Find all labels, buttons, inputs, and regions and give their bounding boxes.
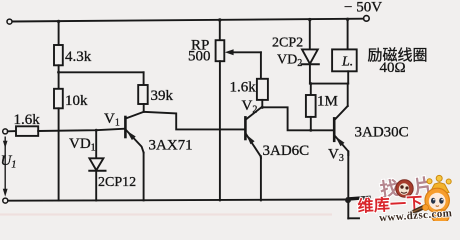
terminal input top <box>3 129 8 134</box>
pink scan smear <box>0 213 332 215</box>
wire: L to node <box>347 71 349 83</box>
wire: 1.6k to V2 collector node <box>261 100 263 108</box>
wire: 10k down to bottom rail <box>58 108 60 200</box>
watermark mascot crown <box>427 175 451 192</box>
svg-text:1.6k: 1.6k <box>230 80 257 96</box>
svg-text:2CP2: 2CP2 <box>272 36 303 51</box>
svg-text:3AD30C: 3AD30C <box>355 125 409 141</box>
terminal -50V <box>364 16 370 22</box>
wire: stem to RP500 <box>219 20 221 40</box>
wire: stem to 39k <box>143 72 145 85</box>
wire: 1M top stem <box>310 84 312 95</box>
wire: RP500 down to bottom rail <box>219 61 221 200</box>
resistor 1.6k middle <box>257 79 268 100</box>
wire: stem to R 4.3k <box>58 21 60 45</box>
resistor 39k <box>138 85 148 104</box>
bottom rail stub right <box>348 197 369 199</box>
resistor 10k <box>54 89 63 109</box>
resistor 1.6k input <box>16 126 38 136</box>
wiper arrow of RP500 <box>225 49 261 79</box>
node wire VD2/L/1M/V3C <box>310 83 348 85</box>
svg-text:3AD6C: 3AD6C <box>263 143 310 159</box>
svg-text:L.: L. <box>341 55 353 70</box>
wire: V3 emitter down past rail <box>347 151 349 218</box>
watermark mascot arm <box>423 205 429 211</box>
wire: V2 collector to V3 base <box>262 107 333 130</box>
diode VD2 <box>302 49 318 63</box>
wire: 4.3k to node A <box>58 65 60 89</box>
wire: stem to coil L <box>347 19 349 49</box>
top rail wire <box>12 19 363 22</box>
bottom rail wire <box>8 200 348 201</box>
wire: VD1 cathode to bottom rail <box>95 171 97 201</box>
svg-text:500: 500 <box>188 49 211 65</box>
arrow U1 input polarity <box>3 137 8 197</box>
resistor 4.3k <box>54 45 63 65</box>
resistor 1M <box>306 95 316 117</box>
terminal bottom-left <box>3 198 8 203</box>
svg-text:4.3k: 4.3k <box>65 49 92 65</box>
svg-text:3AX71: 3AX71 <box>149 138 193 154</box>
wire: 1M bottom stem <box>310 117 312 130</box>
wire: 1.6k to V1 base <box>38 129 124 131</box>
watermark mascot eyes <box>431 198 444 204</box>
potentiometer RP500 <box>216 40 225 61</box>
wire: node to V3 collector <box>347 84 349 106</box>
transistor V2 <box>245 107 262 158</box>
svg-text:2CP12: 2CP12 <box>98 175 136 190</box>
wire: V1 emitter to bottom rail <box>143 153 145 201</box>
watermark mascot pen <box>409 204 432 215</box>
svg-text:1M: 1M <box>317 94 338 110</box>
svg-text:10k: 10k <box>65 93 88 109</box>
coil L box <box>332 49 357 71</box>
wire: V1 collector to V2 base <box>144 112 245 130</box>
wire: V2 emitter to bottom rail <box>260 156 262 200</box>
wire: VD2 anode from rail <box>309 20 311 50</box>
wire: 39k to V1 collector <box>143 104 145 112</box>
transistor V3 <box>334 106 348 155</box>
svg-text:1.6k: 1.6k <box>14 112 41 128</box>
svg-text:40Ω: 40Ω <box>380 60 406 76</box>
wire: VD2 cathode down <box>309 64 311 83</box>
watermark mascot head <box>425 188 449 212</box>
node A wire to 39k <box>59 71 144 73</box>
watermark mascot body <box>432 210 449 224</box>
wire: VD1 anode <box>95 130 97 158</box>
watermark mascot mouth <box>436 205 439 208</box>
wire: stub at bottom of V3 emitter <box>348 217 359 219</box>
svg-text:39k: 39k <box>151 88 174 104</box>
transistor V1 <box>125 112 143 153</box>
terminal top-left <box>7 19 12 24</box>
svg-text:− 50V: − 50V <box>344 0 382 16</box>
watermark circle logo <box>396 180 413 197</box>
diode VD1 <box>89 158 103 170</box>
wire: input terminal to 1.6k <box>8 130 16 132</box>
watermark group <box>357 174 453 225</box>
